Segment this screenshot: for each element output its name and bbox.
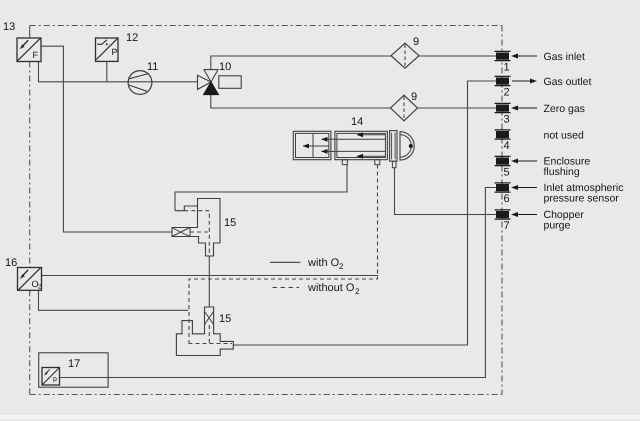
filter 9a diamond xyxy=(391,43,419,68)
wire box13 right to restrictor 15a xyxy=(41,46,172,232)
wire box16 right to dashed junction xyxy=(42,275,379,277)
svg-text:11: 11 xyxy=(147,61,158,73)
svg-text:without O: without O xyxy=(307,282,355,294)
enclosure dashed border top xyxy=(30,25,502,27)
svg-text:15: 15 xyxy=(219,313,231,325)
svg-text:purge: purge xyxy=(544,219,571,231)
svg-text:9: 9 xyxy=(413,36,419,48)
wire box13 bottom to pump line xyxy=(39,62,198,82)
valve 10 (3-way solenoid) xyxy=(198,70,242,95)
port 4 not used xyxy=(495,129,584,152)
dashed path inside lower manifold xyxy=(189,325,233,344)
svg-text:F: F xyxy=(33,50,39,60)
O2 sensor box 16 xyxy=(18,268,42,291)
analyzer 14: detector box xyxy=(293,131,331,159)
svg-text:4: 4 xyxy=(504,140,510,152)
svg-text:not used: not used xyxy=(544,129,584,141)
svg-text:2: 2 xyxy=(339,262,344,271)
port 2 gas outlet xyxy=(495,76,592,99)
enclosure dashed border bottom xyxy=(30,394,502,396)
analyzer 14: beam lines with arrows xyxy=(303,132,386,158)
analyzer 14: IR source D-shape xyxy=(400,132,414,160)
wire box12 stem xyxy=(106,61,108,81)
wire cell tabA to upper manifold xyxy=(175,165,347,211)
svg-text:15: 15 xyxy=(224,217,236,229)
svg-text:13: 13 xyxy=(3,21,15,33)
wire box16 bottom to lower manifold stub xyxy=(39,290,189,310)
svg-text:Gas inlet: Gas inlet xyxy=(544,51,586,63)
svg-text:5: 5 xyxy=(504,167,510,179)
svg-text:7: 7 xyxy=(504,220,510,232)
upper manifold 15 xyxy=(172,199,220,257)
svg-text:pressure sensor: pressure sensor xyxy=(544,192,620,204)
svg-text:16: 16 xyxy=(5,257,17,269)
pressure switch box 12 xyxy=(96,38,119,61)
filter 9b diamond xyxy=(391,95,418,121)
svg-text:17: 17 xyxy=(68,358,80,370)
dashed wire cell tabB down, left, into lower manifold xyxy=(189,165,378,344)
svg-text:14: 14 xyxy=(351,116,363,128)
svg-text:12: 12 xyxy=(126,32,138,44)
svg-text:2: 2 xyxy=(504,87,510,99)
border solid stub into box13 xyxy=(29,26,31,39)
port 1 gas inlet xyxy=(495,51,586,74)
svg-text:flushing: flushing xyxy=(544,166,580,178)
svg-text:2: 2 xyxy=(38,284,42,291)
svg-text:9: 9 xyxy=(411,91,417,103)
svg-text:1: 1 xyxy=(504,62,510,74)
flow sensor box 13 xyxy=(17,38,41,62)
wire valve10 top to filter 9a to port1 xyxy=(211,56,496,70)
analyzer 14: chopper narrow box xyxy=(390,131,397,162)
svg-text:3: 3 xyxy=(504,114,510,126)
lower manifold 15 xyxy=(176,307,233,356)
enclosure dashed border right xyxy=(501,26,503,395)
port 6 inlet atmospheric pressure sensor xyxy=(495,182,624,205)
box 17 with pressure sensor xyxy=(39,353,108,387)
wire port2 gas outlet down to lower manifold xyxy=(233,81,496,345)
svg-text:P: P xyxy=(112,47,118,57)
svg-text:Gas outlet: Gas outlet xyxy=(544,76,592,88)
analyzer 14: measuring cell xyxy=(335,131,388,159)
wire port6 to box17 pressure sensor xyxy=(60,188,497,378)
svg-text:with O: with O xyxy=(307,257,340,269)
analyzer 14: bottom tabs xyxy=(342,160,396,168)
svg-text:2: 2 xyxy=(355,287,360,296)
port 7 chopper purge xyxy=(495,209,585,232)
enclosure dashed border left xyxy=(29,62,31,395)
pump 11 xyxy=(128,71,152,95)
wire valve10 bottom to filter 9b to port3 xyxy=(211,95,496,108)
port 5 enclosure flushing xyxy=(495,155,591,178)
svg-text:Zero gas: Zero gas xyxy=(544,103,585,115)
svg-text:10: 10 xyxy=(219,61,231,73)
wire cell tabC to port7 chopper purge xyxy=(395,168,497,215)
legend with O2 xyxy=(270,257,344,271)
port 3 zero gas xyxy=(495,103,585,126)
legend without O2 xyxy=(273,282,361,296)
dashed path inside upper manifold xyxy=(184,211,209,256)
svg-text:p: p xyxy=(53,376,57,383)
svg-text:6: 6 xyxy=(504,193,510,205)
wire upper manifold tab to lower restrictor xyxy=(208,256,210,312)
